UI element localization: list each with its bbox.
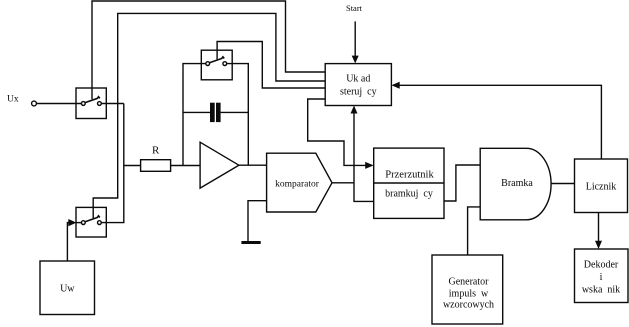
svg-text:Ux: Ux	[7, 95, 19, 105]
arrowhead into flip-flop	[365, 162, 374, 169]
arrowhead into decoder	[595, 241, 602, 249]
svg-text:Przerzutnik: Przerzutnik	[385, 169, 434, 180]
wire S2 top terminal to control unit (line 2)	[93, 13, 325, 218]
wire comparator output to control unit (up) and to flip-flop (down)	[354, 111, 374, 202]
block Licznik (counter)	[575, 159, 628, 213]
wire comparator output	[332, 182, 354, 184]
arrowhead into control unit bottom	[351, 106, 358, 114]
svg-text:wska nik: wska nik	[582, 285, 620, 296]
wire ground to comparator lower input	[248, 201, 267, 242]
svg-text:Uk ad: Uk ad	[346, 73, 370, 84]
svg-text:Uw: Uw	[60, 284, 75, 295]
switch S2 (reference Uw switch)	[76, 207, 106, 237]
svg-text:bramkuj cy: bramkuj cy	[385, 188, 433, 199]
wire counter to decoder	[598, 213, 600, 242]
node Ux input terminal	[32, 101, 37, 106]
ground	[241, 241, 260, 244]
wire capacitor left lead	[183, 111, 210, 113]
wire flip-flop to gate (Bramka)	[444, 165, 480, 201]
resistor R	[141, 160, 171, 172]
svg-text:i: i	[600, 272, 603, 283]
flip-flop block (Przerzutnik bramkujacy)	[374, 148, 444, 218]
wire feedback right rail	[227, 64, 249, 166]
wire S3 top terminal to control unit (line 3)	[217, 42, 325, 89]
wire vertical rail joining S1 and S2 outputs	[101, 104, 124, 223]
wire node B to resistor R	[124, 165, 141, 167]
svg-text:komparator: komparator	[275, 179, 320, 189]
arrow from Uw into switch S2	[68, 219, 76, 226]
switch S3 (integrator reset switch)	[201, 50, 232, 80]
capacitor C (integrator)	[210, 103, 221, 122]
switch S1 (input Ux switch)	[76, 88, 106, 119]
wire capacitor right lead	[221, 111, 249, 113]
wire gate output to counter	[551, 183, 574, 185]
wire S1 top terminal to control unit (line 1)	[92, 1, 325, 99]
wire R to op-amp input	[171, 165, 201, 167]
wire S1 output to node B rail	[101, 103, 124, 105]
gate block (Bramka, AND shape)	[480, 148, 551, 220]
wire generator to gate	[468, 207, 481, 255]
block Dekoder i wskaznik	[575, 249, 629, 303]
wire control unit to flip-flop gate input	[308, 99, 366, 165]
svg-text:R: R	[152, 145, 160, 157]
wire Start to control unit	[354, 21, 356, 57]
wire counter to control unit feedback	[399, 85, 601, 159]
wire op-amp output to comparator	[239, 164, 267, 166]
block Uklad sterujacy (control unit)	[325, 64, 391, 106]
arrowhead into control unit right	[391, 82, 399, 89]
comparator block (komparator)	[267, 153, 332, 212]
svg-text:Generator: Generator	[449, 277, 490, 288]
svg-text:wzorcowych: wzorcowych	[443, 300, 494, 311]
svg-text:Dekoder: Dekoder	[584, 259, 619, 270]
svg-text:impuls w: impuls w	[449, 289, 489, 300]
block Generator impulsow wzorcowych	[432, 255, 503, 324]
wire Uw to switch S2	[67, 223, 68, 261]
wire feedback left rail	[183, 64, 206, 166]
svg-text:Licznik: Licznik	[586, 181, 617, 192]
block Uw (reference voltage source)	[40, 261, 95, 315]
svg-text:Start: Start	[346, 3, 363, 13]
wire Ux terminal to switch S1	[36, 103, 81, 105]
arrowhead Start into control unit top	[352, 56, 359, 64]
op-amp integrator triangle	[200, 142, 239, 188]
svg-text:Bramka: Bramka	[501, 178, 533, 189]
svg-text:steruj cy: steruj cy	[340, 86, 377, 97]
